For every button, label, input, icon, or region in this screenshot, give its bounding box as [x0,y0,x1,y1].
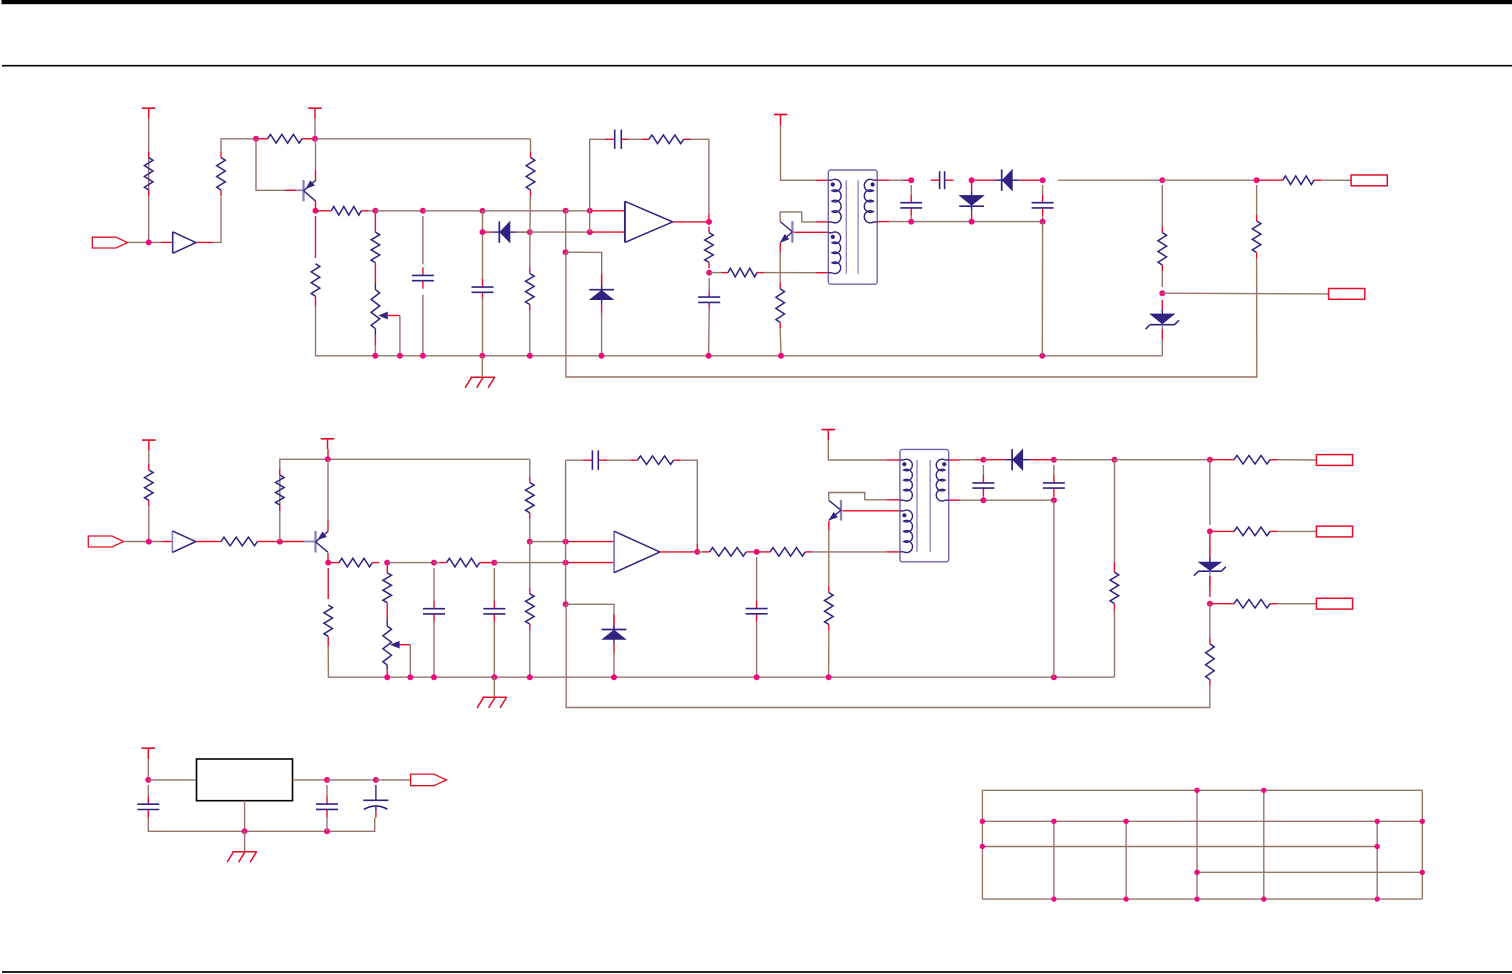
wire C6 top lead [910,185,912,195]
wire to output connector 4 [1277,530,1316,532]
header rule [2,65,1512,67]
table line v [1196,790,1198,899]
wire to regulator [148,779,196,781]
page top black bar [2,0,1512,4]
T2 feedback winding 2 [904,510,913,553]
wire to output connector 2 [1162,292,1328,295]
wire plus line [530,541,566,543]
resistor R33 [1113,562,1115,572]
node rail junction x529 [527,353,533,359]
wire feedback down 1 [565,460,567,541]
wire D1 to R7 node [516,231,530,233]
wire C11 top lead [756,557,758,600]
wire rail corner down [530,139,532,152]
node minus input tap [563,560,569,566]
node input junction 2 [146,539,152,545]
wire [368,210,375,212]
resistor R18 [279,469,281,475]
wire C9 bottom lead [493,622,495,677]
wire R6 to R7 [529,196,532,268]
wire ground rail mid circuit [328,646,1114,677]
resistor R6 [530,152,532,158]
node feedback tap minus [587,229,593,235]
resistor R31 [1227,603,1234,605]
wire R23 to rail [529,630,531,677]
wire sense loop join mid [565,604,568,610]
resistor R26 [763,551,770,553]
resistor R3 [261,138,268,140]
resistor R14 [1161,227,1163,233]
wire plus-line seg [375,210,423,212]
node rail-base junction [253,136,259,142]
wire Q4 emitter down [828,531,830,587]
wire feedback down 3 [565,563,567,605]
node C9 top [491,560,497,566]
node reg gnd [242,828,248,834]
capacitor C5 [931,179,940,181]
node plus line start [527,539,533,545]
diode D4 [589,289,614,291]
transformer T2 [900,449,949,561]
wire emitter line seg [387,562,434,564]
wire feedback right corner [691,139,709,214]
wire sec return upper [1114,460,1116,567]
node mid rail junction x494 [491,674,497,680]
wire RV2 wiper down [409,645,411,678]
wire Q2 collector jog to T1 pin2 [780,212,816,222]
node feedback tap plus [587,208,593,214]
wire sec bottom mid [960,499,1054,501]
wire C10 to R24 [607,459,630,461]
wire R26 to T2 winding2 [812,551,886,553]
secondary rectifier top [877,179,889,181]
wire C8 bottom lead [433,622,435,677]
wire sense loop join [565,252,567,258]
input connector J2 [88,536,123,547]
wire sense divider upper [1256,185,1258,215]
node input junction [146,239,152,245]
resistor R8 [642,138,649,140]
resistor R22 [529,477,531,483]
power symbol VCC6 [822,429,836,431]
wire sec top mid [960,459,975,461]
node table junction [1194,870,1199,875]
capacitor C1 [422,267,424,275]
power symbol VCC5 [321,438,335,440]
wire buffer out up [213,197,221,243]
node rail junction x422 [420,353,426,359]
output connector P5 [1316,598,1352,609]
wire Q3 collector up [327,459,329,520]
wire jog to D4 [566,252,602,274]
resistor R30 [1227,530,1234,532]
trimmer RV2 [383,626,392,665]
wire to ground symbol reg [244,831,246,851]
node table junction [1123,819,1128,824]
node plus feedback tap [563,539,569,545]
wire to output connector 5 [1277,603,1316,605]
node R9 bottom [706,270,712,276]
wire C13 top lead [1053,465,1055,475]
node opamp output mid [694,549,700,555]
wire reg gnd pin [244,801,246,832]
T1 secondary winding [864,179,873,222]
node mid rail junction x828 [826,674,832,680]
node opamp output [706,219,712,225]
resistor R21 [383,573,392,603]
wire sec top to divider [1058,179,1162,181]
node table junction [1375,896,1380,901]
node mid rail VCC5 [325,456,331,462]
wire minus-line [530,231,590,233]
node C1 top [420,208,426,214]
node R25-R26 [754,549,760,555]
power symbol VCC1 [142,107,156,109]
capacitor C10 [583,459,592,461]
ground symbol top circuit [470,376,495,378]
wire reg out [293,779,328,781]
wire C1 top lead [422,216,424,264]
wire to output connector 3 [1277,459,1316,461]
wire D5 to rail [613,652,615,677]
wire C6 bottom lead [910,216,912,222]
wire emitter line to minus input [494,562,565,564]
node table junction [1375,819,1380,824]
wire J2 to buffer [125,541,161,543]
capacitor C3 [606,138,615,140]
node rail junction x601 [599,353,605,359]
node table junction [1051,819,1056,824]
wire sec to outputs [1115,459,1210,461]
wire gnd line to C16 [327,818,375,832]
transistor Q2 [791,221,793,243]
table line v [1263,790,1265,899]
power symbol VCC4 [142,439,156,441]
table line h [1197,871,1422,873]
wire feedback right corner mid [681,460,698,544]
wire VCC7 down [147,759,149,780]
node sense jog mid [563,601,569,607]
node C15 top [324,777,330,783]
diode D6 [1011,449,1013,470]
capacitor C9 [493,601,495,609]
node rail junction x375 [372,353,378,359]
wire remote sense loop top [566,258,1257,377]
node mid rail junction x434 [431,674,437,680]
node sec bottom C6 [908,219,914,225]
capacitor C8 [433,601,435,609]
wire R11 to rail [779,328,782,355]
trimmer RV1 [371,290,380,329]
node mid rail junction x410 [407,674,413,680]
wire to output arrow [376,779,411,781]
wire remote sense loop mid [566,610,1210,708]
resistor R32 [1209,638,1211,644]
node sec top D3 [969,177,975,183]
node R4-R5 [372,208,378,214]
wire C4 top lead [708,278,710,292]
op-amp U4 [613,531,615,573]
wire sec bottom line [889,221,1043,223]
node rail junction x1042 [1039,353,1045,359]
wire C7 bottom lead [1042,216,1044,222]
table line v [1421,790,1423,899]
wire R16 to input node [148,506,150,541]
wire rail to ground symbol [481,356,483,378]
buffer amplifier U3A [171,531,173,553]
resistor R16 [148,464,150,470]
wire feedback up [590,139,606,211]
node diode D1 anode line [480,229,486,235]
node table junction [1051,896,1056,901]
resistor R13 [1276,179,1283,181]
op-amp U2 [624,201,626,242]
output connector P4 [1316,526,1352,537]
diode D2 [1001,170,1003,191]
node sec bottom C12 [980,497,986,503]
table line h [982,789,1422,791]
node sec return drop [1112,457,1118,463]
wire rail to feedback corner [315,138,531,140]
node table junction [980,844,985,849]
table line v [1053,821,1055,899]
node table junction [1194,896,1199,901]
capacitor C13 [1053,475,1055,483]
wire VCC1 down to input node [148,119,150,243]
node mid rail junction x614 [611,674,617,680]
wire VCC3 to T1 pin1 [781,125,817,180]
node mid rail junction x1053 [1051,674,1057,680]
trimmer RV2 wiper arrow [391,641,400,648]
resistor R20 [440,562,447,564]
wire C4 bottom lead [708,308,711,356]
T2 primary winding 1 [904,459,913,501]
wire R10 to T1 winding2 [764,272,816,274]
resistor R23 [529,588,531,594]
wire plus-line seg3 [483,210,566,212]
node output sense top [1254,177,1260,183]
resistor R19 [332,562,339,564]
table line v [1125,821,1127,899]
wire plus-line seg2 [423,210,483,212]
node mid rail junction x529 [527,674,533,680]
node R19-RV2 [384,560,390,566]
wire C12 bottom lead [982,496,984,500]
wire sec return lower [1114,610,1116,678]
node reg input [145,777,151,783]
wire Q1 emitter to rail [315,139,317,170]
zener diode Z1 [1150,314,1175,324]
wire C14 bottom to gnd line [148,818,244,832]
table line v [981,790,983,899]
wire C1 bottom lead [422,295,424,356]
wire C13 bottom lead [1053,496,1055,500]
node table junction [980,819,985,824]
table line h [982,846,1377,848]
table line h [982,898,1422,900]
wire chain seg1 [1209,460,1211,525]
trimmer RV1 wiper arrow [379,312,388,319]
node table junction [1194,788,1199,793]
voltage regulator U5 [197,759,293,801]
output connector P6 [411,774,447,786]
zener diode Z2 [1198,562,1221,570]
resistor R11 [779,283,781,289]
wire VCC6 down [827,440,829,460]
wire jog to D5 [566,604,614,615]
wire mid top rail [328,458,530,460]
wire VCC2 stem [314,119,316,139]
resistor R10 [721,272,728,274]
T1 feedback winding 2 [832,232,841,274]
node C8 top [431,560,437,566]
wire R27 to rail [828,631,830,678]
wire divider upper [1161,185,1163,227]
resistor R12 [311,264,320,296]
transformer T1 [828,170,877,284]
wire Q2 emitter down [779,252,781,283]
T1 primary winding 1 [832,179,841,222]
wire plus-line seg4 [566,210,590,212]
resistor R27 [828,587,830,593]
wire sec top [889,179,903,181]
node Q1 collector [313,208,319,214]
capacitor C6 [910,195,912,203]
resistor R17 [214,541,221,543]
wire to T2 pin1 [828,459,886,461]
node chain R31 [1207,601,1213,607]
node zener top [1159,290,1165,296]
wire C15 top lead [326,785,328,796]
wire feedback top left [566,459,584,461]
RV2 trimmer chain [386,566,388,573]
diode D3 [959,195,984,205]
resistor R15 [1256,215,1258,221]
wire to mid top rail [280,459,328,469]
node table junction [1123,896,1128,901]
capacitor C7 [1042,195,1044,203]
wire sense tap down [565,211,567,252]
ground symbol regulator [232,851,257,853]
resistor R29 [1227,459,1234,461]
node rail junction x781 [778,353,784,359]
wire C11 bottom lead [756,622,758,677]
wire chain seg2 [1209,604,1211,638]
wire to top rail [221,139,256,152]
bottom rail of top circuit [315,216,317,258]
wire C3 to R8 [627,138,642,140]
capacitor C11 [756,601,758,609]
node rail junction x399 [397,353,403,359]
resistor R25 [703,551,710,553]
resistor R7 [529,268,531,274]
node sec bottom corner mid [1051,497,1057,503]
node R7 chain [527,229,533,235]
node divider top [1159,177,1165,183]
wire C8 top lead [433,568,435,601]
resistor R24 [631,459,638,461]
capacitor C12 [982,475,984,483]
wire out seg [327,779,376,781]
resistor R5 [371,232,380,262]
electrolytic capacitor C16 [375,785,377,800]
wire rail to ground symbol mid [493,677,495,697]
node R17-R18 base [277,539,283,545]
wire C12 top lead [982,465,984,475]
node mid rail junction x756 [754,674,760,680]
node C2 top [480,208,486,214]
wire gnd line seg [245,830,327,832]
transistor Q1 [302,180,304,202]
wire ground rail top circuit [316,306,1163,356]
node sec top C7 [1040,177,1046,183]
node sec top C12 [980,457,986,463]
resistor R4 [324,210,331,212]
wire C2 top lead [482,234,484,281]
node rail-VCC2 junction [312,136,318,142]
wire VCC4 stem [148,451,150,465]
resistor R28 [324,605,333,636]
capacitor C2 [482,279,484,287]
node table junction [1261,788,1266,793]
wire sec bottom to rail mid [1053,500,1055,677]
wire C7 top lead [1042,185,1044,195]
bottom rail mid circuit [327,568,329,599]
wire C2 link between input lines [482,211,484,232]
node rail junction x708 [706,353,712,359]
wire C15 bottom lead [326,817,328,831]
diode D1 [498,221,500,242]
wire feedback joins inputs [589,211,591,232]
wire feedback down 2 [565,542,567,563]
wire to Q1 base [256,139,285,191]
wire sec line [1054,459,1115,461]
resistor R5 and trimmer RV1 chain [374,214,376,232]
wire R22 to plus line [529,519,531,542]
node mid rail junction x387 [384,674,390,680]
node C16 top [373,777,379,783]
node sec top C13 [1051,457,1057,463]
wire to output connector 1 [1321,179,1351,181]
capacitor C15 [326,796,328,804]
wire base node up [279,470,281,542]
capacitor C4 [708,289,710,297]
wire Q4 collector jog to T2 pin2 [829,493,887,501]
node sec top C6 [908,177,914,183]
node Q3 emitter [325,560,331,566]
capacitor C14 [147,796,149,804]
node C15 bottom [324,828,330,834]
wire down across minus line [529,542,531,588]
node rail junction x482 [479,353,485,359]
power symbol VCC3 [774,114,788,116]
wire Z1 to rail end [1161,340,1163,356]
resistor R2 [220,152,222,158]
node table junction [1420,819,1425,824]
node sec bottom D3 [969,219,975,225]
wire R14 to zener node [1161,271,1163,287]
resistor R9 [708,227,710,233]
diode D5 [602,629,627,631]
node table junction [1261,896,1266,901]
output connector P3 [1316,455,1352,466]
table line h [982,820,1422,822]
node table junction [1375,844,1380,849]
ground symbol mid circuit [482,696,507,698]
wire rail corner down mid [529,459,531,476]
node table junction [1420,870,1425,875]
footer rule [2,971,1512,973]
